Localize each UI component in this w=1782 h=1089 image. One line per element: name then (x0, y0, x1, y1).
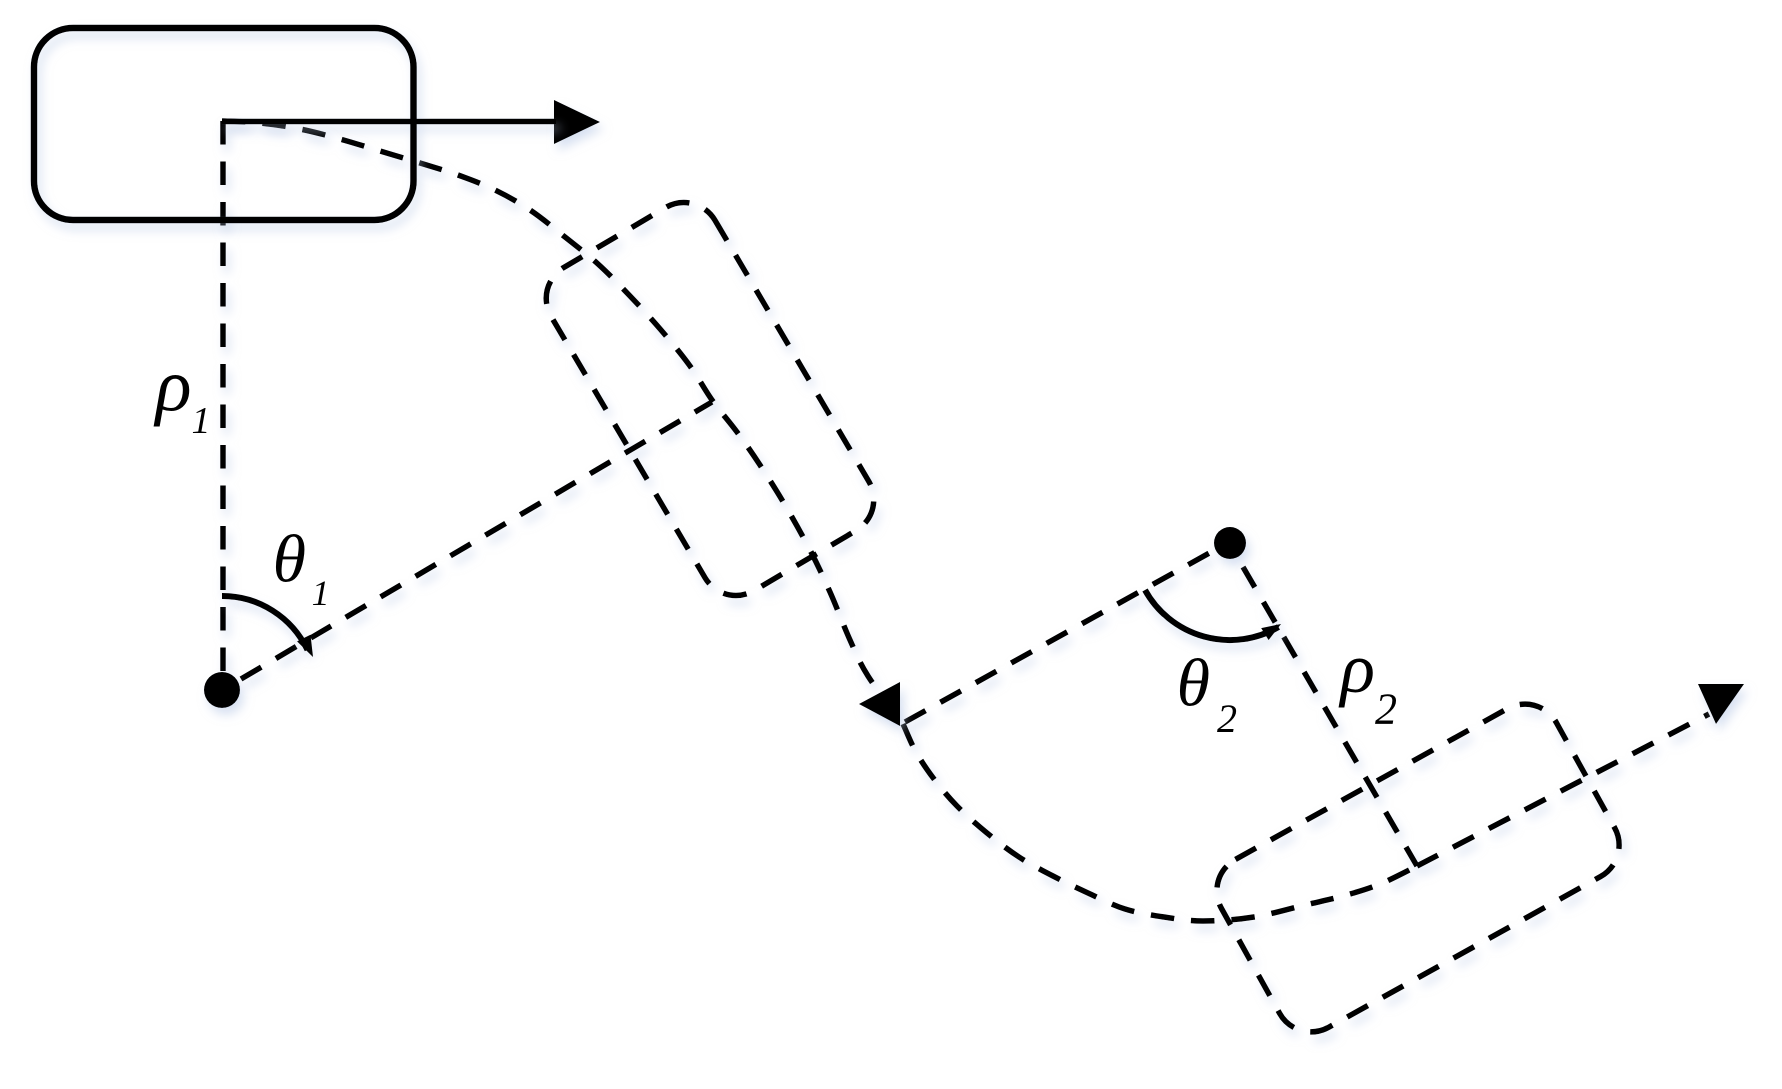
svg-text:ρ: ρ (1338, 628, 1375, 708)
wire exit (1417, 714, 1709, 866)
theta2 angle arc (1145, 590, 1279, 640)
svg-text:1: 1 (312, 573, 330, 613)
wire (1243, 567, 1417, 866)
wire (905, 551, 1213, 722)
node dot 2 (1214, 527, 1246, 559)
svg-text:2: 2 (1375, 685, 1397, 734)
wire (220, 121, 226, 671)
theta1 angle arc (222, 596, 308, 650)
heading line vehicle1 (222, 119, 556, 125)
theta2 arc arrowhead (1261, 624, 1281, 640)
svg-text:θ: θ (1177, 645, 1210, 721)
arrowhead vehicle1 heading (554, 100, 600, 144)
svg-text:1: 1 (192, 400, 211, 442)
arrowhead trajectory junction (859, 682, 900, 726)
vehicle rect 3 (1204, 691, 1632, 1045)
trajectory arc 2 (903, 724, 1417, 921)
svg-text:ρ: ρ (154, 345, 192, 428)
theta1 arc arrowhead (297, 635, 313, 657)
trajectory arc 1 (222, 121, 903, 724)
vehicle rect 1 (34, 28, 414, 220)
svg-text:θ: θ (273, 521, 306, 597)
vehicle rect 2 (533, 189, 887, 609)
svg-text:2: 2 (1217, 696, 1237, 741)
wire (241, 402, 712, 679)
arrowhead exit (1698, 684, 1744, 724)
node dot 1 (204, 672, 240, 708)
